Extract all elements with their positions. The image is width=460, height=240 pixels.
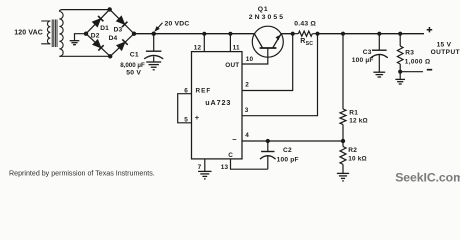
diode D4 <box>109 35 128 50</box>
svg-text:−: − <box>232 135 237 144</box>
label SeekIC.com watermark <box>395 171 460 185</box>
pin 6 REF loop to pin 5 <box>178 88 192 124</box>
svg-text:120 VAC: 120 VAC <box>14 29 43 36</box>
label 120 VAC <box>14 29 43 36</box>
wire primary leads <box>41 21 50 44</box>
pin 2 wire to RSC left <box>242 34 293 91</box>
diode D1 <box>92 16 109 32</box>
svg-text:C1: C1 <box>130 52 139 59</box>
pin 4 wire to divider <box>242 132 343 141</box>
resistor R2 10k <box>340 141 367 173</box>
svg-text:13: 13 <box>221 164 229 171</box>
wire bridge diamond sides <box>86 9 134 56</box>
svg-text:10: 10 <box>246 56 254 63</box>
ground (C1) <box>146 62 161 70</box>
resistor RSC 0.43 ohm <box>293 21 318 47</box>
capacitor C3 <box>352 34 388 72</box>
pin 12 <box>194 34 205 52</box>
wire bridge left vertex to ground <box>75 34 87 41</box>
capacitor C2 <box>260 141 299 169</box>
ground (bridge) <box>70 41 80 45</box>
svg-text:SeekIC.com: SeekIC.com <box>395 171 460 185</box>
svg-text:2: 2 <box>245 82 249 89</box>
svg-text:1,000 Ω: 1,000 Ω <box>405 59 431 66</box>
svg-text:5: 5 <box>184 117 188 124</box>
transistor Q1 2N3055 <box>249 6 285 57</box>
svg-text:50 V: 50 V <box>126 70 141 77</box>
pin 7 to ground <box>198 159 205 172</box>
svg-text:Reprinted by permission of Tex: Reprinted by permission of Texas Instrum… <box>9 169 155 177</box>
wire minus output line <box>400 71 423 73</box>
op-amp regulator U1 uA723 box <box>192 52 243 160</box>
node pin12 tap <box>202 32 206 36</box>
resistor R1 12k <box>340 34 368 141</box>
ground (pin 7) <box>198 171 211 179</box>
label 20 VDC with arrow <box>154 20 189 32</box>
svg-text:12 kΩ: 12 kΩ <box>349 118 368 125</box>
pin 13 wire to C2 bottom <box>221 159 268 171</box>
svg-text:C2: C2 <box>283 147 292 154</box>
svg-text:8,000 µF: 8,000 µF <box>120 62 145 69</box>
node pin11 tap <box>228 32 232 36</box>
node RSC right <box>315 32 319 36</box>
svg-text:2N3055: 2N3055 <box>249 14 285 21</box>
diode D2 <box>91 33 104 51</box>
svg-text:R2: R2 <box>348 147 357 154</box>
node output minus terminal <box>427 69 432 71</box>
svg-text:3: 3 <box>245 107 249 114</box>
svg-text:Q1: Q1 <box>258 6 269 13</box>
svg-text:7: 7 <box>198 164 202 171</box>
svg-text:D1: D1 <box>100 25 109 32</box>
svg-text:6: 6 <box>184 88 188 95</box>
svg-text:15 V: 15 V <box>437 41 452 48</box>
node R1 rail tap <box>341 32 345 36</box>
svg-text:D3: D3 <box>114 27 123 34</box>
node R3 rail tap <box>398 32 402 36</box>
svg-text:REF: REF <box>196 88 212 95</box>
svg-text:100 µF: 100 µF <box>352 57 374 64</box>
label attribution footer <box>9 169 155 177</box>
svg-text:R1: R1 <box>349 110 358 117</box>
svg-text:11: 11 <box>233 45 240 52</box>
svg-text:C3: C3 <box>363 49 372 56</box>
svg-text:uA723: uA723 <box>205 98 231 107</box>
label 15 V OUTPUT <box>431 41 460 55</box>
svg-text:0.43 Ω: 0.43 Ω <box>294 21 316 28</box>
node emitter / RSC left <box>291 32 295 36</box>
svg-text:100 pF: 100 pF <box>277 157 299 164</box>
pin 11 <box>230 34 240 52</box>
transformer T1 <box>47 12 63 57</box>
node C2 tap <box>266 139 270 143</box>
capacitor C1 <box>120 34 163 77</box>
node output plus terminal <box>427 27 433 32</box>
node R3 bottom junction <box>398 70 402 74</box>
svg-text:D4: D4 <box>109 35 118 42</box>
node C1 tap <box>152 32 156 36</box>
node C3 tap <box>377 32 381 36</box>
wire secondary top to bridge top vertex <box>59 10 109 12</box>
svg-text:4: 4 <box>245 132 249 139</box>
ground (R2) <box>337 173 349 181</box>
node R1/R2 junction <box>341 139 345 143</box>
svg-text:10 kΩ: 10 kΩ <box>348 155 367 162</box>
svg-text:20 VDC: 20 VDC <box>165 20 190 27</box>
wire secondary bottom to bridge bottom vertex <box>59 55 110 57</box>
node bridge vertices <box>84 7 136 58</box>
svg-text:OUT: OUT <box>225 62 239 69</box>
ground (C3) <box>373 72 385 77</box>
resistor R3 1000 ohm <box>397 34 430 80</box>
svg-text:D2: D2 <box>91 33 100 40</box>
ground (R3) <box>395 79 405 84</box>
pin 3 wire to RSC right <box>242 34 318 116</box>
svg-text:SC: SC <box>306 41 314 47</box>
svg-text:+: + <box>195 113 200 122</box>
wire main 20V rail <box>134 33 424 35</box>
svg-text:12: 12 <box>194 45 202 52</box>
svg-text:C: C <box>228 152 233 159</box>
svg-text:R3: R3 <box>405 50 414 57</box>
svg-text:OUTPUT: OUTPUT <box>431 49 460 56</box>
diode D3 <box>114 16 128 33</box>
pin 10 wire to Q1 base <box>242 48 268 64</box>
